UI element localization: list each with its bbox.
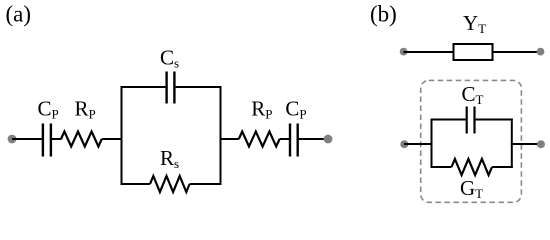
resistor Rs bbox=[150, 176, 190, 192]
wire right vertical of parallel box bbox=[220, 86, 222, 185]
terminal node left (b top) bbox=[400, 48, 408, 56]
capacitor CT bbox=[467, 107, 475, 134]
wire left terminal to YT box bbox=[404, 51, 454, 53]
wire CT branch right segment bbox=[476, 119, 513, 121]
wire left terminal into dashed box bbox=[404, 143, 433, 145]
capacitor CP (right) bbox=[290, 124, 298, 157]
wire right vertical of CT/GT box bbox=[511, 119, 513, 169]
terminal node left (b bottom) bbox=[400, 140, 408, 148]
wire CT branch left segment bbox=[431, 119, 466, 121]
resistor RP (right) bbox=[239, 132, 280, 147]
wire YT box to right terminal bbox=[493, 51, 541, 53]
capacitor CP (left) bbox=[43, 124, 51, 157]
capacitor Cs bbox=[167, 72, 175, 104]
wire bottom branch left segment bbox=[121, 183, 151, 185]
wire dashed box to right terminal bbox=[511, 143, 541, 145]
terminal node right (b top) bbox=[537, 48, 545, 56]
wire RP to parallel box bbox=[102, 138, 123, 140]
wire top branch left segment bbox=[121, 86, 166, 88]
wire parallel box to RP right bbox=[220, 138, 239, 140]
terminal node right (a) bbox=[324, 135, 333, 144]
resistor RP (left) bbox=[61, 132, 102, 147]
wire bottom branch right segment bbox=[190, 183, 222, 185]
wire left terminal to CP bbox=[12, 138, 42, 140]
dashed enclosure box bbox=[421, 80, 522, 202]
wire RP to CP right bbox=[280, 138, 290, 140]
wire left vertical of parallel box bbox=[121, 86, 123, 185]
wire GT branch left segment bbox=[431, 166, 452, 168]
svg-text:(a): (a) bbox=[6, 2, 32, 27]
svg-text:(b): (b) bbox=[370, 2, 397, 27]
wire CP to RP bbox=[51, 138, 62, 140]
wire left vertical of CT/GT box bbox=[431, 119, 433, 169]
wire GT branch right segment bbox=[492, 166, 513, 168]
resistor GT bbox=[452, 159, 493, 175]
wire top branch right segment bbox=[176, 86, 222, 88]
two-port box YT bbox=[454, 44, 493, 60]
terminal node left (a) bbox=[8, 135, 17, 144]
terminal node right (b bottom) bbox=[537, 140, 545, 148]
wire CP to right terminal bbox=[298, 138, 328, 140]
